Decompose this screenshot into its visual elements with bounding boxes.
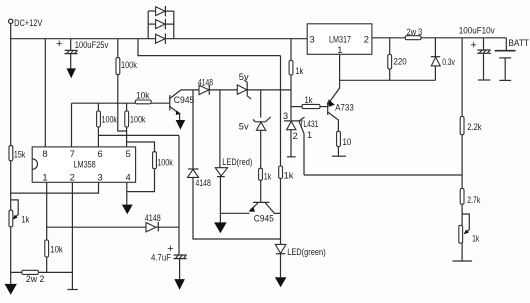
resistor 2.7k <box>460 189 480 206</box>
resistor 1k (TL431 pullup) <box>289 61 304 76</box>
svg-text:+: + <box>471 39 477 51</box>
ground (100uF25v) <box>67 68 76 78</box>
regulator U2 LM317 <box>307 24 372 55</box>
resistor 15k <box>9 146 26 161</box>
svg-text:5: 5 <box>126 148 131 159</box>
wire pin7 drop <box>71 103 73 147</box>
ground (LED green) <box>275 277 287 287</box>
svg-text:6: 6 <box>98 148 103 159</box>
svg-text:15k: 15k <box>14 149 26 159</box>
capacitor C 100uF10v <box>459 25 495 80</box>
svg-text:C945: C945 <box>174 95 195 105</box>
wire LM317 output rail <box>372 37 506 39</box>
wire TL431 cathode column <box>290 39 292 121</box>
resistor 2w2 <box>22 270 45 284</box>
wire pin3 to divider node <box>11 183 99 194</box>
diode D8 0.3v <box>431 38 455 81</box>
wire TL431 ref from divider <box>304 174 462 176</box>
diode D1 (parallel trio top) <box>148 6 174 16</box>
svg-text:1: 1 <box>307 130 312 140</box>
svg-text:1k: 1k <box>472 234 479 244</box>
resistor 1k (Q2 base) <box>259 168 272 181</box>
svg-text:3: 3 <box>283 111 288 121</box>
diode D9 4148 (to 4.7uF) <box>145 213 179 232</box>
svg-text:5v: 5v <box>239 121 249 131</box>
resistor 100k (pin6 pullup) <box>97 103 118 147</box>
wire pin8 supply drop <box>44 39 46 147</box>
resistor 2.2k <box>460 117 482 135</box>
svg-text:10: 10 <box>343 137 352 147</box>
diode D3 (on rail) <box>156 34 166 44</box>
svg-text:8: 8 <box>42 148 47 159</box>
capacitor C 100uF25v <box>56 38 109 69</box>
svg-text:4148: 4148 <box>196 178 211 188</box>
LED D7 green <box>275 244 325 257</box>
ground (right divider) <box>453 260 473 262</box>
ground (Q1 emitter) <box>176 120 186 130</box>
svg-text:7: 7 <box>70 148 75 159</box>
svg-text:1k: 1k <box>295 66 303 76</box>
ground (left rail) <box>5 284 17 295</box>
transistor Q1 C945 <box>170 90 195 121</box>
wire left +12V rail <box>10 24 12 284</box>
svg-text:10k: 10k <box>136 91 150 101</box>
wire battery sense column <box>461 38 463 226</box>
resistor 100k (pin5 pullup) <box>125 103 146 147</box>
wire pin4 drop <box>126 183 128 205</box>
battery BATT <box>495 38 530 81</box>
wire LM317 pin1 drop <box>339 54 341 80</box>
wire adj rail <box>340 79 436 81</box>
svg-text:DC+12V: DC+12V <box>14 18 43 28</box>
svg-text:1k: 1k <box>21 214 29 224</box>
diode D4 4148 (horizontal) <box>198 77 213 94</box>
svg-text:2w 2: 2w 2 <box>26 274 45 284</box>
shunt reference U3 TL431 <box>283 111 318 175</box>
svg-text:2.2k: 2.2k <box>467 122 482 132</box>
svg-text:+: + <box>56 38 62 50</box>
diode D2 (parallel trio middle) <box>148 19 174 29</box>
wire pin5 to 100k right <box>127 142 155 152</box>
svg-text:1k: 1k <box>305 95 313 105</box>
svg-text:2: 2 <box>70 172 75 183</box>
resistor 100k (top, to pin5) <box>116 39 137 131</box>
svg-text:LED(red): LED(red) <box>222 157 252 167</box>
svg-text:1k: 1k <box>284 170 294 180</box>
wire pin1 column / 10k divider <box>46 183 48 241</box>
resistor 10k (horizontal) <box>135 91 151 104</box>
resistor 100k (right of LM358) <box>127 152 173 192</box>
wire green LED / feedback column <box>280 56 282 278</box>
LED red column wire <box>219 90 222 223</box>
transistor Q3 A733 <box>328 80 354 131</box>
svg-text:4.7uF: 4.7uF <box>151 252 171 262</box>
resistor 1k (A733 base) <box>291 95 328 109</box>
op-amp U1 LM358 body <box>32 147 135 183</box>
wire comparator input row <box>72 102 170 104</box>
svg-text:1k: 1k <box>264 172 272 182</box>
wire Q2 emitter to LED red node <box>220 212 250 214</box>
svg-text:3: 3 <box>98 172 103 183</box>
potentiometer 1k (left) <box>9 200 30 227</box>
svg-text:BATT: BATT <box>508 38 529 48</box>
zener ZD1 5v (horizontal) <box>237 72 251 99</box>
resistor 10k (divider) <box>45 240 63 272</box>
svg-text:100uF10v: 100uF10v <box>459 25 495 35</box>
svg-text:LM317: LM317 <box>329 34 351 45</box>
zener ZD2 5v (vertical) column <box>260 90 262 202</box>
svg-text:1: 1 <box>337 44 342 55</box>
wire top +12V rail <box>11 38 308 40</box>
wire pin6 feedback to 4.7uF column <box>98 134 179 136</box>
svg-text:100k: 100k <box>130 114 146 124</box>
svg-text:1: 1 <box>42 172 47 183</box>
resistor 220 <box>388 38 407 81</box>
svg-text:TL431: TL431 <box>299 119 318 129</box>
svg-text:5v: 5v <box>239 72 249 82</box>
svg-text:2: 2 <box>293 131 298 141</box>
svg-text:220: 220 <box>393 56 406 66</box>
potentiometer 1k (right) <box>459 214 480 261</box>
wire diode-block side rails <box>148 11 174 39</box>
transistor Q2 C945 (inverted) <box>249 202 281 223</box>
svg-text:0.3v: 0.3v <box>442 57 455 67</box>
node DC+12V input terminal <box>9 18 44 28</box>
resistor 2w3 (series output) <box>405 27 422 40</box>
svg-text:100k: 100k <box>121 60 137 70</box>
wire pin2 drop <box>71 183 73 290</box>
svg-text:2: 2 <box>364 34 369 45</box>
svg-text:100k: 100k <box>102 114 118 124</box>
capacitor C 4.7uF <box>151 135 187 279</box>
wire 4148 column to green LED column <box>193 90 281 239</box>
wire from top rail to zener row <box>138 39 281 56</box>
ground (4.7uF) <box>174 279 185 290</box>
diode D5 4148 (vertical) <box>188 169 211 188</box>
wire comparator output row <box>181 89 291 91</box>
ground (10 ohm) <box>332 155 346 157</box>
svg-text:3: 3 <box>310 34 315 45</box>
svg-text:C945: C945 <box>254 214 274 224</box>
svg-text:LED(green): LED(green) <box>287 247 326 257</box>
wire pin1 comparator node row <box>47 226 146 228</box>
ground (LED red) <box>214 222 227 233</box>
svg-text:10k: 10k <box>50 245 63 255</box>
ground (pin4) <box>122 205 133 215</box>
zener ZD2 5v <box>239 117 271 131</box>
LED D6 red <box>215 157 252 176</box>
svg-text:LM358: LM358 <box>74 158 96 169</box>
svg-text:100k: 100k <box>157 157 173 167</box>
ground (pin2) <box>67 289 77 291</box>
svg-text:A733: A733 <box>335 103 354 113</box>
svg-text:2.7k: 2.7k <box>467 195 480 205</box>
resistor 1k (green LED column) <box>279 166 294 180</box>
resistor 10 (Q3 collector) <box>337 131 352 156</box>
wire bottom node row <box>11 271 73 273</box>
svg-text:4: 4 <box>126 172 131 183</box>
svg-text:100uF25v: 100uF25v <box>75 40 109 50</box>
